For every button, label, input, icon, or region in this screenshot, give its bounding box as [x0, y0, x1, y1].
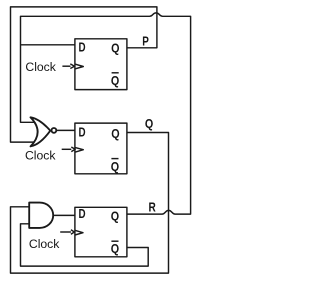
svg-text:Q: Q: [111, 40, 119, 55]
wire net R: U3 Q output right with hop, up right side, top inner line with hop, down to NOR upper input: [21, 13, 191, 214]
svg-text:Q: Q: [111, 126, 119, 141]
clock edge marker U1: [75, 64, 83, 69]
AND gate G2 body: [29, 203, 53, 228]
svg-text:D: D: [78, 206, 85, 221]
NOR gate G1 bubble: [52, 128, 57, 133]
NOR gate G1 output wire to U2 D input: [56, 129, 75, 131]
svg-text:Clock: Clock: [29, 237, 60, 251]
flip-flop U2 box: [75, 123, 127, 174]
svg-text:Q: Q: [111, 241, 119, 256]
clock arrowhead U3: [71, 230, 75, 234]
clock edge marker U2: [75, 147, 83, 152]
svg-text:Q: Q: [145, 116, 153, 131]
clock arrowhead U2: [71, 147, 75, 152]
wire net Q: U2 Q output right, down, bottom outer line, up left side to AND upper input: [11, 133, 169, 274]
svg-text:P: P: [142, 34, 149, 49]
svg-text:Clock: Clock: [25, 149, 56, 163]
Qbar overline U2: [111, 158, 118, 160]
svg-text:Clock: Clock: [25, 60, 56, 74]
clock arrow dash U1: [62, 65, 70, 67]
svg-text:D: D: [79, 40, 86, 55]
clock arrow dash U2: [62, 148, 72, 150]
wire net Q3bar: U3 Qbar output right, down, bottom inner line, up to AND lower input: [21, 224, 149, 266]
NOR gate G1 body: [31, 117, 57, 146]
svg-text:R: R: [149, 200, 156, 215]
svg-text:Q: Q: [111, 159, 119, 174]
svg-text:Q: Q: [111, 208, 119, 223]
flip-flop U3 box: [75, 207, 127, 256]
AND gate G2 output wire to U3 D input: [53, 214, 75, 216]
Qbar overline U3: [111, 240, 118, 242]
clock arrow dash U3: [60, 231, 71, 233]
flip-flop U1 box: [75, 39, 127, 90]
clock edge marker U3: [75, 230, 83, 235]
Qbar overline U1: [112, 72, 119, 74]
svg-text:D: D: [79, 125, 86, 140]
wire net P: U1 Q output right then up over top and down left side to NOR lower input: [11, 7, 157, 142]
svg-text:Q: Q: [111, 73, 119, 88]
wire branch: net R to U1 D input: [21, 44, 75, 46]
clock arrowhead U1: [70, 64, 74, 69]
